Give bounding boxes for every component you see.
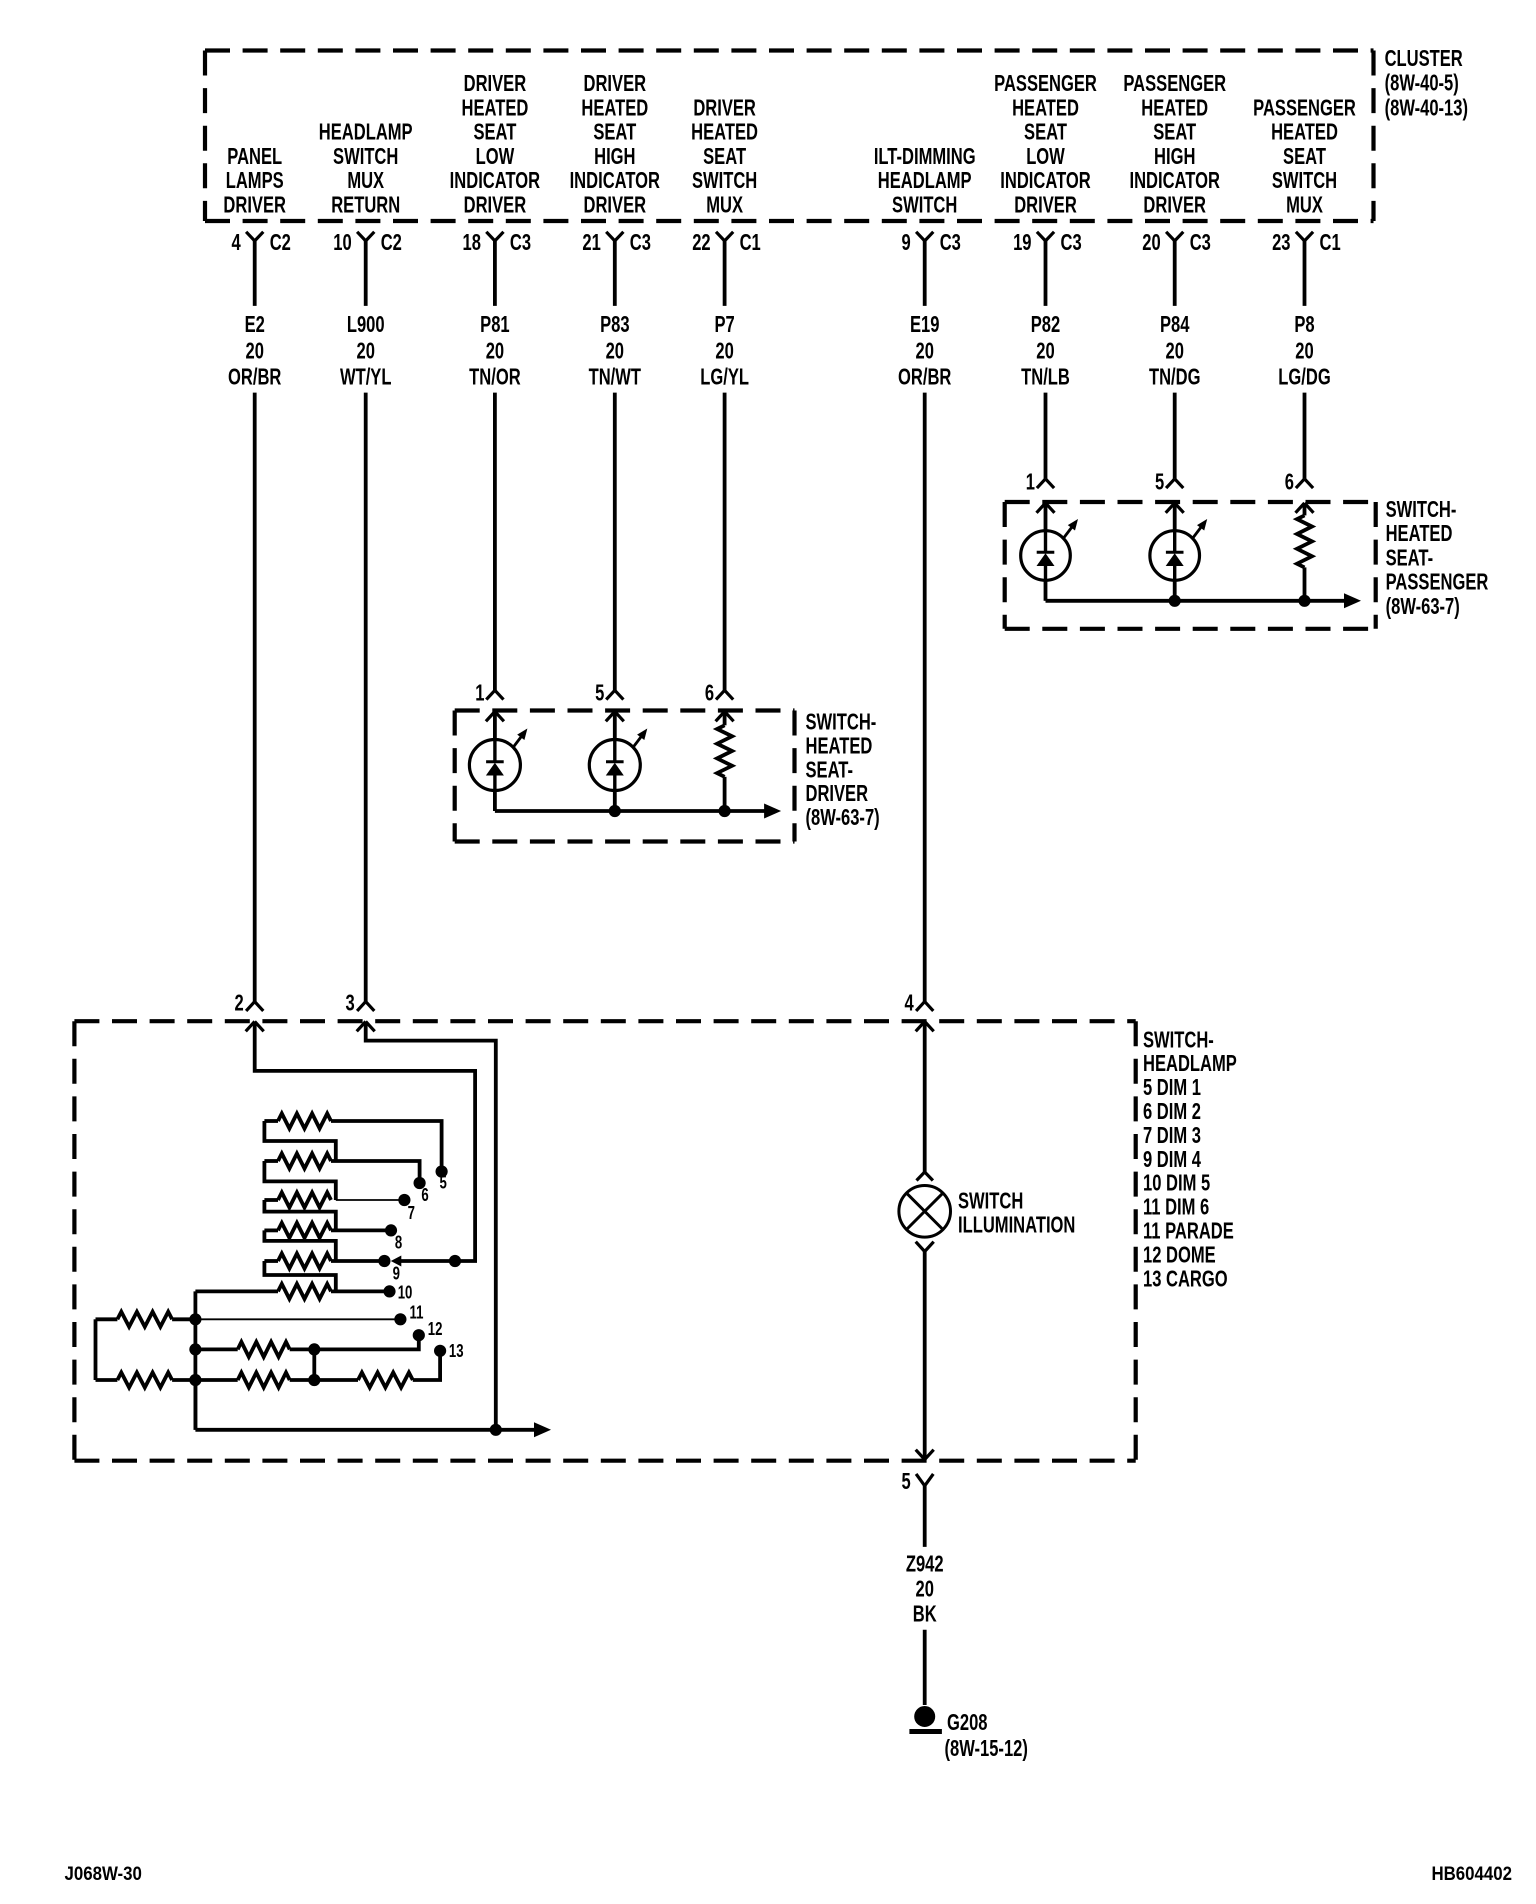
svg-text:J068W-30: J068W-30 — [65, 1862, 142, 1885]
pin 5 (headlamp switch bottom) — [901, 1469, 933, 1494]
connector pin 22 C1 — [692, 230, 761, 255]
svg-text:DRIVER: DRIVER — [806, 782, 869, 807]
connector pin 18 C3 — [462, 230, 531, 255]
pin 1 (driver seat switch) — [475, 681, 503, 706]
svg-text:PASSENGER: PASSENGER — [1386, 570, 1489, 595]
lamp label SWITCH ILLUMINATION — [958, 1189, 1075, 1239]
wire pin4 down to lamp — [923, 1022, 927, 1173]
wire label P82 20 TN/LB — [1021, 312, 1070, 390]
wire pin2 to wiper (node 9) — [255, 1022, 475, 1262]
wire pin3 to common node — [366, 1022, 496, 1430]
wire P83 lower segment — [613, 393, 617, 691]
connector pin 10 C2 — [333, 230, 402, 255]
svg-text:MUX: MUX — [706, 193, 743, 218]
svg-text:E19: E19 — [910, 312, 939, 337]
wire into headlamp box pin 2 — [246, 1022, 255, 1032]
svg-text:P8: P8 — [1294, 312, 1314, 337]
svg-text:11 PARADE: 11 PARADE — [1143, 1219, 1234, 1244]
svg-text:20: 20 — [715, 339, 733, 364]
pin 5 (passenger seat switch) — [1155, 470, 1183, 495]
svg-text:E2: E2 — [245, 312, 265, 337]
wire ladder U-link 4 — [264, 1230, 335, 1261]
svg-text:10: 10 — [398, 1284, 413, 1304]
resistor ladder R4 — [264, 1223, 331, 1238]
svg-text:HIGH: HIGH — [1154, 144, 1195, 169]
svg-text:13 CARGO: 13 CARGO — [1143, 1267, 1228, 1292]
svg-text:DRIVER: DRIVER — [1014, 193, 1077, 218]
ground G208 — [909, 1707, 942, 1732]
passenger box bus wire with junctions and arrow — [1046, 593, 1362, 608]
svg-text:10 DIM 5: 10 DIM 5 — [1143, 1171, 1210, 1196]
wire P82 upper segment — [1044, 241, 1048, 306]
svg-text:HEATED: HEATED — [806, 734, 873, 759]
svg-text:1: 1 — [1026, 470, 1035, 495]
svg-text:INDICATOR: INDICATOR — [1000, 169, 1091, 194]
indicator LED (driver high) — [589, 712, 647, 812]
exit arrow at box bottom — [916, 1450, 925, 1460]
wire ladder U-link 5 — [264, 1261, 335, 1291]
wire label L900 20 WT/YL — [340, 312, 391, 390]
svg-text:C3: C3 — [940, 230, 961, 255]
svg-text:11: 11 — [410, 1304, 424, 1324]
svg-text:(8W-63-7): (8W-63-7) — [1386, 594, 1460, 619]
wire into passenger box pin 5 — [1166, 503, 1175, 513]
wire into driver box pin 5 — [606, 712, 615, 722]
wire label E2 20 OR/BR — [228, 312, 282, 390]
svg-text:C3: C3 — [630, 230, 651, 255]
svg-text:6: 6 — [1285, 470, 1294, 495]
wire into passenger box pin 1 — [1037, 503, 1046, 513]
node 8 tap — [331, 1225, 402, 1253]
svg-text:C3: C3 — [510, 230, 531, 255]
node 7 tap — [336, 1194, 415, 1223]
svg-text:LG/DG: LG/DG — [1278, 365, 1330, 390]
node 5 tap — [331, 1121, 447, 1193]
wire into driver box pin 1 — [486, 712, 495, 722]
indicator LED (passenger low) — [1021, 503, 1078, 601]
svg-text:(8W-40-5): (8W-40-5) — [1385, 71, 1459, 96]
svg-text:HEATED: HEATED — [1141, 96, 1208, 121]
cluster pin label ILT-DIMMING HEADLAMP SWITCH — [874, 144, 976, 218]
wire link 12-13 rows — [312, 1349, 316, 1380]
svg-text:20: 20 — [915, 339, 933, 364]
svg-text:P7: P7 — [714, 312, 734, 337]
connector pin 23 C1 — [1272, 230, 1341, 255]
svg-text:LAMPS: LAMPS — [226, 169, 284, 194]
svg-text:SWITCH-: SWITCH- — [1143, 1028, 1214, 1053]
svg-text:13: 13 — [449, 1342, 464, 1362]
wire lamp to pin 5 — [923, 1252, 927, 1460]
svg-text:SEAT: SEAT — [473, 120, 517, 145]
svg-text:RETURN: RETURN — [331, 193, 400, 218]
svg-text:9: 9 — [901, 230, 910, 255]
svg-text:BK: BK — [913, 1602, 937, 1627]
svg-text:SEAT-: SEAT- — [806, 758, 854, 783]
svg-text:HEADLAMP: HEADLAMP — [1143, 1052, 1237, 1077]
wire ladder U-link 3 — [264, 1200, 335, 1230]
svg-text:P83: P83 — [600, 312, 629, 337]
svg-text:MUX: MUX — [1286, 193, 1323, 218]
connector pin 21 C3 — [582, 230, 651, 255]
svg-text:12 DOME: 12 DOME — [1143, 1243, 1216, 1268]
node 11 tap — [195, 1304, 423, 1325]
wire into headlamp box pin 3 — [357, 1022, 366, 1032]
wire label E19 20 OR/BR — [898, 312, 952, 390]
pin 6 (driver seat switch) — [705, 681, 733, 706]
cluster pin label PASSENGER HEATED SEAT LOW INDICATOR DRIVER — [994, 71, 1097, 218]
svg-text:SEAT: SEAT — [703, 144, 747, 169]
svg-text:20: 20 — [1036, 339, 1054, 364]
wire P81 lower segment — [493, 393, 497, 691]
wire P84 lower segment — [1173, 393, 1177, 479]
svg-text:(8W-63-7): (8W-63-7) — [806, 806, 880, 831]
switch-headlamp dashed box — [74, 1019, 1135, 1023]
driver box bus wire with junctions and arrow — [495, 804, 781, 819]
wire into driver box pin 6 — [716, 712, 725, 722]
resistor ladder R1 — [264, 1114, 331, 1129]
resistor R7b (left pair bottom) — [96, 1373, 196, 1388]
cluster (instrument cluster) dashed box — [205, 48, 1374, 52]
node 12 tap — [309, 1320, 443, 1355]
svg-text:TN/WT: TN/WT — [589, 365, 642, 390]
svg-text:(8W-40-13): (8W-40-13) — [1385, 96, 1468, 121]
svg-text:20: 20 — [486, 339, 504, 364]
svg-text:10: 10 — [333, 230, 351, 255]
svg-text:PASSENGER: PASSENGER — [994, 71, 1097, 96]
wire left pair link — [94, 1319, 98, 1380]
connector pin 20 C3 — [1142, 230, 1211, 255]
svg-text:MUX: MUX — [347, 169, 384, 194]
svg-text:HEATED: HEATED — [581, 96, 648, 121]
svg-text:Z942: Z942 — [906, 1552, 944, 1577]
svg-text:TN/OR: TN/OR — [469, 365, 521, 390]
svg-text:HB604402: HB604402 — [1431, 1862, 1512, 1885]
svg-text:LOW: LOW — [476, 144, 515, 169]
svg-text:DRIVER: DRIVER — [464, 71, 527, 96]
svg-text:5: 5 — [901, 1469, 910, 1494]
svg-text:23: 23 — [1272, 230, 1290, 255]
cluster pin label DRIVER HEATED SEAT SWITCH MUX — [691, 96, 758, 218]
svg-text:8: 8 — [395, 1234, 402, 1254]
svg-text:WT/YL: WT/YL — [340, 365, 391, 390]
wire E19 lower segment — [923, 393, 927, 1002]
svg-text:19: 19 — [1013, 230, 1031, 255]
svg-text:4: 4 — [231, 230, 241, 255]
wire label P83 20 TN/WT — [589, 312, 642, 390]
wire into headlamp box pin 4 — [916, 1022, 925, 1032]
svg-text:20: 20 — [1142, 230, 1160, 255]
wire P7 upper segment — [723, 241, 727, 306]
cluster label — [1385, 46, 1468, 121]
pin 1 (passenger seat switch) — [1026, 470, 1054, 495]
svg-text:20: 20 — [606, 339, 624, 364]
lamp terminal chevron bottom — [916, 1242, 925, 1252]
svg-text:HEATED: HEATED — [1386, 522, 1453, 547]
connector pin 9 C3 — [901, 230, 960, 255]
svg-text:18: 18 — [462, 230, 480, 255]
lamp SWITCH ILLUMINATION — [899, 1186, 951, 1238]
node 13 tap — [413, 1342, 464, 1380]
svg-text:C3: C3 — [1190, 230, 1211, 255]
svg-text:TN/LB: TN/LB — [1021, 365, 1070, 390]
svg-text:TN/DG: TN/DG — [1149, 365, 1201, 390]
wire E19 upper segment — [923, 241, 927, 306]
wire label P8 20 LG/DG — [1278, 312, 1330, 390]
svg-text:DRIVER: DRIVER — [584, 71, 647, 96]
svg-text:5 DIM 1: 5 DIM 1 — [1143, 1076, 1201, 1101]
svg-text:P81: P81 — [480, 312, 509, 337]
svg-text:L900: L900 — [347, 312, 385, 337]
svg-text:SEAT: SEAT — [1283, 144, 1327, 169]
wire label P81 20 TN/OR — [469, 312, 521, 390]
svg-text:SWITCH: SWITCH — [892, 193, 957, 218]
svg-text:C1: C1 — [1320, 230, 1341, 255]
svg-text:HEATED: HEATED — [1271, 120, 1338, 145]
svg-text:7 DIM 3: 7 DIM 3 — [1143, 1123, 1201, 1148]
svg-text:C2: C2 — [381, 230, 402, 255]
resistor (driver seat switch mux) — [717, 712, 732, 812]
svg-text:PASSENGER: PASSENGER — [1123, 71, 1226, 96]
svg-text:1: 1 — [475, 681, 484, 706]
svg-text:HEADLAMP: HEADLAMP — [878, 169, 972, 194]
svg-text:SWITCH-: SWITCH- — [1386, 497, 1457, 522]
svg-text:20: 20 — [1165, 339, 1183, 364]
svg-text:2: 2 — [234, 991, 243, 1016]
svg-text:5: 5 — [440, 1173, 447, 1193]
wire Z942 upper — [923, 1486, 927, 1547]
svg-text:SWITCH: SWITCH — [958, 1189, 1023, 1214]
wire P82 lower segment — [1044, 393, 1048, 479]
svg-text:7: 7 — [408, 1204, 415, 1224]
wire into passenger box pin 6 — [1296, 503, 1305, 513]
svg-text:P82: P82 — [1031, 312, 1060, 337]
svg-text:C1: C1 — [740, 230, 761, 255]
cluster pin label DRIVER HEATED SEAT LOW INDICATOR DRIVER — [450, 71, 541, 218]
cluster pin label PASSENGER HEATED SEAT HIGH INDICATOR DRIVER — [1123, 71, 1226, 218]
wire L900 upper segment — [364, 241, 368, 306]
svg-text:20: 20 — [915, 1577, 933, 1602]
svg-text:9 DIM 4: 9 DIM 4 — [1143, 1147, 1202, 1172]
wire R6 left lead down — [193, 1291, 197, 1429]
svg-text:20: 20 — [1295, 339, 1313, 364]
pin 3 (headlamp switch) — [345, 991, 374, 1016]
junction dots on x=195 vertical — [190, 1314, 201, 1325]
svg-text:22: 22 — [692, 230, 710, 255]
wire P83 upper segment — [613, 241, 617, 306]
svg-text:5: 5 — [1155, 470, 1164, 495]
svg-text:HEATED: HEATED — [691, 120, 758, 145]
svg-text:ILT-DIMMING: ILT-DIMMING — [874, 144, 976, 169]
wire label P7 20 LG/YL — [700, 312, 749, 390]
svg-text:SWITCH-: SWITCH- — [806, 710, 877, 735]
svg-text:HEATED: HEATED — [461, 96, 528, 121]
svg-text:DRIVER: DRIVER — [584, 193, 647, 218]
svg-text:SEAT-: SEAT- — [1386, 546, 1434, 571]
svg-text:DRIVER: DRIVER — [464, 193, 527, 218]
svg-text:SWITCH: SWITCH — [333, 144, 398, 169]
svg-text:9: 9 — [393, 1264, 400, 1284]
svg-text:DRIVER: DRIVER — [223, 193, 286, 218]
wire E2 lower segment — [253, 393, 257, 1002]
wire P7 lower segment — [723, 393, 727, 691]
resistor R7a (left pair top) — [96, 1312, 196, 1327]
svg-text:INDICATOR: INDICATOR — [570, 169, 661, 194]
resistor ladder R2 — [264, 1154, 331, 1169]
resistor R8 (node 12 row) — [195, 1342, 314, 1357]
lamp terminal chevron top — [917, 1172, 925, 1181]
svg-text:11 DIM 6: 11 DIM 6 — [1143, 1195, 1209, 1220]
pin 4 (headlamp switch) — [904, 991, 933, 1016]
wire ladder U-link 1 — [264, 1121, 335, 1161]
svg-text:6 DIM 2: 6 DIM 2 — [1143, 1099, 1201, 1124]
svg-text:20: 20 — [356, 339, 374, 364]
indicator LED (passenger high) — [1150, 503, 1207, 601]
svg-text:HEATED: HEATED — [1012, 96, 1079, 121]
svg-text:CLUSTER: CLUSTER — [1385, 46, 1464, 71]
wire ladder U-link 2 — [264, 1161, 335, 1200]
cluster pin label DRIVER HEATED SEAT HIGH INDICATOR DRIVER — [570, 71, 661, 218]
svg-text:SEAT: SEAT — [1153, 120, 1197, 145]
connector pin 19 C3 — [1013, 230, 1082, 255]
wire P84 upper segment — [1173, 241, 1177, 306]
label SWITCH-HEATED SEAT-DRIVER (8W-63-7) — [806, 710, 880, 831]
svg-text:P84: P84 — [1160, 312, 1190, 337]
switch-heated seat-driver dashed box — [455, 708, 795, 712]
common bus bottom wire with junction and arrow — [195, 1380, 551, 1437]
wire P8 upper segment — [1303, 241, 1307, 306]
cluster pin label PASSENGER HEATED SEAT SWITCH MUX — [1253, 96, 1356, 218]
svg-text:6: 6 — [421, 1186, 428, 1206]
node 10 tap — [331, 1284, 412, 1304]
pin 5 (driver seat switch) — [595, 681, 623, 706]
resistor R9 (node 13 row left) — [195, 1373, 314, 1388]
wire label Z942 20 BK — [906, 1552, 944, 1627]
connector pin 4 C2 — [231, 230, 290, 255]
svg-text:SEAT: SEAT — [593, 120, 637, 145]
wire Z942 lower — [923, 1630, 927, 1705]
resistor ladder R6 — [195, 1284, 331, 1299]
svg-text:INDICATOR: INDICATOR — [450, 169, 541, 194]
pin 2 (headlamp switch) — [234, 991, 263, 1016]
svg-text:DRIVER: DRIVER — [1143, 193, 1206, 218]
svg-text:21: 21 — [582, 230, 600, 255]
svg-text:3: 3 — [345, 991, 354, 1016]
svg-text:5: 5 — [595, 681, 604, 706]
indicator LED (driver low) — [469, 712, 527, 812]
resistor R10 (node 13 row right) — [309, 1373, 413, 1388]
svg-text:SWITCH: SWITCH — [1272, 169, 1337, 194]
cluster pin label PANEL LAMPS DRIVER — [223, 144, 286, 218]
resistor (passenger seat switch mux) — [1297, 503, 1312, 601]
wire L900 lower segment — [364, 393, 368, 1002]
svg-text:SEAT: SEAT — [1024, 120, 1068, 145]
svg-text:INDICATOR: INDICATOR — [1129, 169, 1220, 194]
svg-text:(8W-15-12): (8W-15-12) — [945, 1736, 1028, 1761]
node 9 tap — [331, 1255, 400, 1283]
wire P8 lower segment — [1303, 393, 1307, 479]
wire E2 upper segment — [253, 241, 257, 306]
svg-text:DRIVER: DRIVER — [693, 96, 756, 121]
svg-text:20: 20 — [245, 339, 263, 364]
svg-text:12: 12 — [428, 1320, 443, 1340]
svg-text:PASSENGER: PASSENGER — [1253, 96, 1356, 121]
resistor ladder R5 — [264, 1254, 331, 1269]
resistor ladder R3 — [264, 1193, 331, 1208]
svg-text:HIGH: HIGH — [594, 144, 635, 169]
svg-text:HEADLAMP: HEADLAMP — [319, 120, 413, 145]
svg-text:4: 4 — [904, 991, 914, 1016]
label SWITCH-HEATED SEAT-PASSENGER (8W-63-7) — [1386, 497, 1489, 619]
svg-text:ILLUMINATION: ILLUMINATION — [958, 1213, 1075, 1238]
cluster pin label HEADLAMP SWITCH MUX RETURN — [319, 120, 413, 218]
svg-text:6: 6 — [705, 681, 714, 706]
svg-text:LOW: LOW — [1026, 144, 1065, 169]
svg-text:LG/YL: LG/YL — [700, 365, 749, 390]
svg-text:OR/BR: OR/BR — [898, 365, 952, 390]
label SWITCH-HEADLAMP legend — [1143, 1028, 1237, 1292]
svg-text:G208: G208 — [947, 1710, 988, 1735]
svg-text:C2: C2 — [270, 230, 291, 255]
wire label P84 20 TN/DG — [1149, 312, 1201, 390]
switch-heated seat-passenger dashed box — [1005, 500, 1376, 504]
svg-text:PANEL: PANEL — [227, 144, 282, 169]
wire P81 upper segment — [493, 241, 497, 306]
svg-text:C3: C3 — [1061, 230, 1082, 255]
pin 6 (passenger seat switch) — [1285, 470, 1313, 495]
node 6 tap — [331, 1161, 429, 1205]
svg-text:SWITCH: SWITCH — [692, 169, 757, 194]
svg-text:OR/BR: OR/BR — [228, 365, 282, 390]
